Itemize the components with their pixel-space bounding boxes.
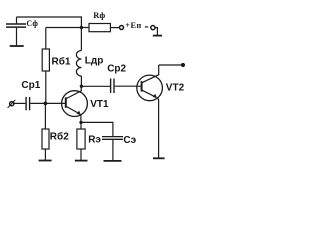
transistor VT2: [137, 65, 163, 158]
terminal circle left of +En: [120, 26, 124, 30]
wire emitter to Ce: [81, 122, 113, 136]
svg-text:Lдр: Lдр: [85, 56, 104, 67]
svg-text:Rб1: Rб1: [52, 55, 71, 67]
ground bar under Re: [75, 160, 88, 162]
wire to corpus: [155, 28, 157, 36]
svg-text:Ср2: Ср2: [107, 64, 126, 75]
ground bar under VT2 emitter: [153, 157, 165, 159]
resistor R61: [42, 28, 49, 104]
svg-text:Rф: Rф: [93, 11, 105, 20]
wire top from Cf to corner: [17, 17, 82, 28]
svg-text:+Еп: +Еп: [125, 21, 142, 30]
svg-text:Rэ: Rэ: [88, 135, 101, 146]
node emitter VT1: [79, 121, 82, 124]
ground bar under Ce: [104, 160, 122, 162]
capacitor Cp2: [111, 79, 114, 94]
wire collector to Cp2: [81, 85, 110, 87]
capacitor Ce: [102, 137, 123, 161]
svg-text:VT1: VT1: [90, 99, 109, 110]
ground bar under Cf: [10, 45, 24, 47]
wire Cp2 to base VT2: [115, 85, 142, 87]
wire collector VT2 to output node: [159, 64, 183, 66]
input terminal: [8, 100, 16, 108]
inductor Ldr: [76, 28, 81, 87]
transistor VT1: [62, 86, 88, 122]
node base VT1: [44, 102, 48, 106]
svg-text:Сэ: Сэ: [123, 135, 136, 146]
svg-text:Сф: Сф: [26, 19, 38, 28]
svg-text:Ср1: Ср1: [21, 80, 40, 91]
ground bar under R62: [39, 160, 52, 162]
terminal circle right of +En: [151, 26, 155, 30]
capacitor Cp1: [26, 97, 30, 110]
capacitor Cf: [6, 17, 26, 45]
wire input to Cp1: [14, 102, 26, 104]
resistor Rf: [89, 24, 119, 32]
node collector VT1: [80, 85, 83, 88]
node output dot: [181, 63, 185, 67]
svg-text:VT2: VT2: [166, 82, 185, 93]
wire supply bus: [46, 27, 89, 29]
wire Cp1 to base VT1: [30, 102, 66, 104]
svg-text:Rб2: Rб2: [50, 131, 69, 143]
node junction bus/Ldr: [80, 26, 83, 29]
resistor R62: [42, 103, 49, 160]
resistor Re: [77, 122, 85, 160]
corpus bar of supply: [153, 35, 162, 37]
